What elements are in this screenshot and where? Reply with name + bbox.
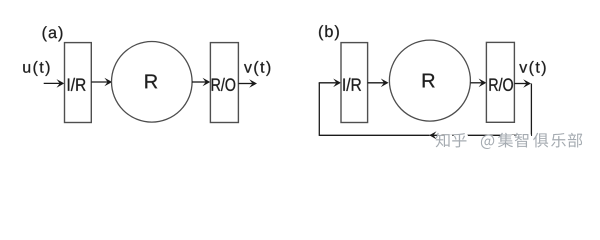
- label I/R (b): [343, 78, 361, 91]
- block I/R (b): [341, 43, 368, 123]
- block I/R (a): [65, 43, 92, 123]
- block R/O (a): [210, 43, 238, 123]
- label (a): [43, 26, 63, 41]
- wire: bottom rail left part (b): [319, 134, 429, 136]
- wire: circle to R/O (a): [192, 81, 206, 83]
- watermark text 知乎 @集智俱乐部: [436, 133, 583, 149]
- circle R (a): [112, 42, 193, 123]
- wire: input arrow into I/R (b): [319, 82, 337, 84]
- label u(t): [23, 61, 49, 76]
- wire: output arrow (b): [514, 83, 526, 85]
- watermark emboss shadow: [437, 134, 584, 150]
- wire: circle to R/O (b): [470, 82, 481, 84]
- block R/O (b): [486, 42, 514, 122]
- label v(t) (a): [244, 61, 270, 76]
- circle R (b): [389, 40, 470, 121]
- label v(t) (b): [519, 61, 545, 76]
- label R/O (a): [212, 78, 235, 91]
- label R (b): [423, 74, 435, 88]
- arrowhead on feedback rail pointing left (b): [429, 131, 436, 139]
- wire: feedback right vertical + bottom rail (b): [430, 84, 532, 136]
- wire: feedback left vertical (b): [318, 83, 320, 136]
- label R/O (b): [489, 78, 512, 91]
- label (b): [319, 25, 339, 40]
- label R (a): [145, 75, 157, 89]
- wire: I/R to circle (b): [368, 82, 384, 84]
- label I/R (a): [68, 78, 86, 91]
- wire: output arrow (a): [238, 83, 252, 85]
- wire: I/R to circle (a): [91, 81, 107, 83]
- wire: input arrow into I/R (a): [44, 82, 60, 84]
